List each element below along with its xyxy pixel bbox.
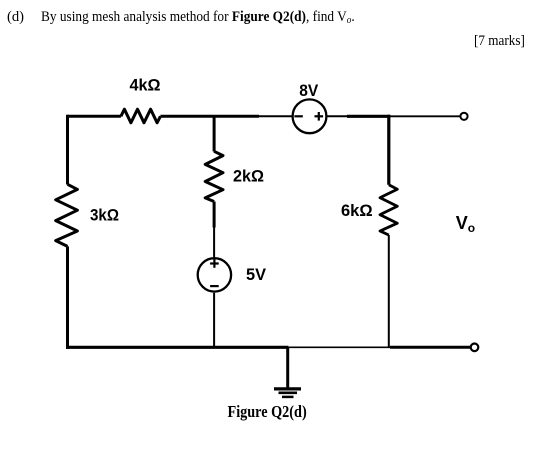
8V minus sign (294, 115, 302, 117)
resistor R 6k zigzag (380, 185, 397, 235)
wire: top horizontal thick segment left of 8V source (68, 115, 121, 118)
wire: thick top segment over right branch (347, 115, 390, 118)
wire: bottom horizontal thick segment (66, 346, 288, 349)
wire: right vertical thick top segment (387, 115, 390, 185)
svg-text:Vo: Vo (456, 213, 475, 235)
wire: bottom segment to output terminal (390, 346, 470, 349)
wire: thin top wire to output terminal (390, 115, 460, 117)
ground bar 1 (274, 387, 301, 390)
wire: right vertical thin bottom segment (388, 235, 390, 347)
wire: thin lead below 5V source (213, 293, 215, 348)
question text line (41, 9, 355, 26)
svg-text:3kΩ: 3kΩ (90, 207, 119, 225)
resistor R 4k zigzag (121, 109, 160, 123)
wire: top horizontal thick from 4k to past middle node (160, 115, 259, 118)
wire: middle vertical top segment (213, 116, 216, 151)
wire: left vertical top segment (66, 115, 69, 185)
node: top output terminal (open circle) (460, 113, 467, 120)
svg-text:6kΩ: 6kΩ (341, 202, 373, 220)
5V minus sign (210, 285, 219, 287)
resistor R 2k zigzag (205, 151, 223, 201)
8V plus sign (315, 112, 324, 121)
resistor R 3k zigzag (56, 184, 78, 246)
marks label (474, 33, 525, 50)
5V plus sign (210, 259, 219, 268)
svg-text:4kΩ: 4kΩ (130, 76, 161, 94)
ground bar 2 (279, 391, 298, 394)
voltage source 8V circle (293, 99, 327, 133)
wire: middle thick segment below 2k (213, 202, 216, 228)
voltage source 5V circle (198, 258, 231, 291)
ground stem (286, 347, 289, 387)
wire: thin lead into 8V source (259, 115, 292, 117)
wire: bottom horizontal thin segment (288, 346, 390, 348)
wire: thin lead into 5V source (213, 228, 215, 258)
wire: left vertical bottom segment (66, 246, 69, 349)
svg-text:8V: 8V (299, 82, 318, 100)
ground bar 3 (282, 396, 294, 399)
wire: thin lead out of 8V source (327, 115, 347, 117)
node: bottom output terminal (open circle) (471, 344, 479, 352)
svg-text:5V: 5V (246, 266, 266, 284)
svg-text:Figure Q2(d): Figure Q2(d) (228, 402, 307, 421)
svg-text:2kΩ: 2kΩ (233, 168, 264, 186)
question text "(d)" (7, 9, 24, 26)
